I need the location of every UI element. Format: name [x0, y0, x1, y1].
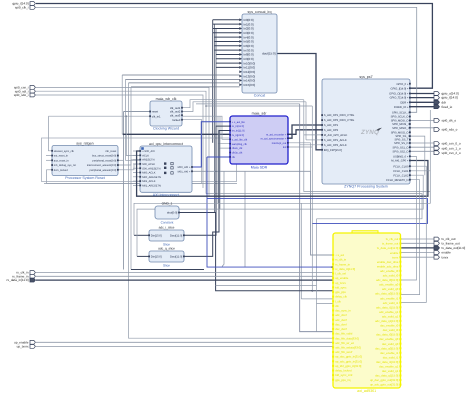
wire gpio_o net	[410, 93, 434, 95]
svg-text:ext_reset_in: ext_reset_in	[54, 155, 69, 158]
wire net 285 v	[316, 219, 318, 332]
svg-text:dcm_locked: dcm_locked	[54, 169, 68, 172]
port txnrx	[434, 255, 449, 259]
svg-text:dout[0:0]: dout[0:0]	[167, 212, 178, 215]
wire rstgen group box	[42, 138, 237, 182]
svg-text:dac_data_q0[15:0]: dac_data_q0[15:0]	[375, 346, 398, 350]
svg-text:tx_data_out[11:0]: tx_data_out[11:0]	[442, 246, 466, 250]
svg-text:+ s_axi_lite: + s_axi_lite	[232, 121, 246, 124]
svg-text:spi0_clk_i: spi0_clk_i	[15, 6, 29, 10]
svg-text:sys_rstgen: sys_rstgen	[76, 141, 93, 145]
wire clkwiz reset vertical	[123, 112, 125, 270]
svg-text:enable: enable	[390, 251, 399, 255]
svg-text:maia_sdr: maia_sdr	[252, 111, 268, 115]
wire left channel v x128	[129, 83, 334, 338]
wire rstgen aux_reset	[46, 159, 52, 161]
svg-text:ZYNQ: ZYNQ	[360, 129, 379, 136]
svg-text:M01_ACLK: M01_ACLK	[142, 180, 156, 183]
wire loop fclk c	[134, 171, 430, 236]
block maia_sdr (Maia SDR)	[229, 111, 288, 169]
wire up_enable	[36, 341, 333, 343]
svg-text:fixed_io: fixed_io	[442, 105, 453, 109]
wire clk_out3 branch b	[220, 116, 230, 148]
wire loop fclk e	[401, 180, 420, 295]
svg-text:spi0_sdo_o: spi0_sdo_o	[442, 128, 458, 132]
svg-text:adc_data_i0[15:0]: adc_data_i0[15:0]	[376, 278, 398, 282]
svg-text:dac_enable_q0: dac_enable_q0	[379, 337, 399, 341]
svg-text:interconnect_aresetn[0:0]: interconnect_aresetn[0:0]	[87, 164, 117, 167]
port spi0_sdo_i	[14, 93, 36, 97]
svg-text:dac_sync_in: dac_sync_in	[335, 309, 351, 313]
port spi0_sdo_o	[434, 128, 458, 132]
wire concat in12	[122, 74, 239, 76]
svg-text:rx_iq[31:0]: rx_iq[31:0]	[232, 134, 244, 137]
wire clkwiz clkin1 in	[49, 115, 151, 117]
svg-text:dac_valid_i0: dac_valid_i0	[383, 328, 399, 332]
svg-text:rx_data_in[11:0]: rx_data_in[11:0]	[7, 278, 29, 282]
wire maia led	[288, 146, 312, 148]
svg-text:adc_i_slice: adc_i_slice	[159, 225, 175, 229]
svg-text:adc_fifo_wdata[63:0]: adc_fifo_wdata[63:0]	[335, 346, 361, 350]
svg-text:spi0_csn_2_o: spi0_csn_2_o	[442, 151, 461, 155]
block sys_ps7 (ZYNQ7 Processing System)	[321, 75, 411, 189]
svg-text:adc_valid_i1: adc_valid_i1	[383, 301, 399, 305]
wire concat input channel v1	[212, 20, 214, 143]
svg-text:peripheral_aresetn[0:0]: peripheral_aresetn[0:0]	[90, 169, 117, 172]
wire loop fclk b v	[311, 223, 313, 290]
svg-text:SPI0_SS2_O: SPI0_SS2_O	[393, 150, 409, 153]
port tx_clk_out	[434, 237, 456, 241]
wire rstgen periph aresetn	[118, 164, 140, 170]
svg-text:GPIO_0 +: GPIO_0 +	[396, 83, 408, 86]
svg-text:up_txnrx: up_txnrx	[17, 345, 29, 349]
svg-text:GPIO_O[14:0] +: GPIO_O[14:0] +	[389, 93, 409, 96]
svg-text:up_txnrx: up_txnrx	[335, 281, 346, 285]
wire loop fclk f	[401, 157, 417, 281]
svg-text:S00_ACLK: S00_ACLK	[142, 163, 155, 166]
wire loop fclk d	[137, 175, 423, 256]
wire ss_i stub	[410, 136, 425, 175]
svg-text:DDR +: DDR +	[400, 101, 409, 104]
wire locked net	[47, 120, 202, 184]
svg-text:M_AXI_GP0 +: M_AXI_GP0 +	[391, 160, 409, 163]
svg-text:dac_data_q1[15:0]: dac_data_q1[15:0]	[375, 374, 398, 378]
svg-text:up_enable: up_enable	[335, 276, 349, 280]
svg-text:enable_dac_dma: enable_dac_dma	[377, 260, 399, 264]
svg-text:ACLK: ACLK	[142, 154, 149, 157]
svg-text:gps_pps: gps_pps	[335, 290, 346, 294]
wire maia m_axi_spect	[288, 125, 322, 138]
port tx_data_out[11:0]	[434, 246, 465, 250]
svg-text:Processor System Reset: Processor System Reset	[65, 176, 105, 180]
svg-text:SPI0_MISO_I: SPI0_MISO_I	[392, 127, 409, 130]
wire slice q dout	[184, 131, 230, 257]
svg-text:clk_in1: clk_in1	[152, 114, 161, 118]
svg-text:SPI0_MOSI_I: SPI0_MOSI_I	[392, 123, 409, 126]
wire spi0_sdo_o net	[410, 127, 434, 129]
wire concat in15	[131, 86, 240, 88]
wire net 193	[206, 194, 422, 219]
svg-text:S_AXI_HP1_FIFO_CTRL: S_AXI_HP1_FIFO_CTRL	[324, 114, 355, 117]
wire blue l_clk v1	[207, 157, 333, 267]
svg-text:rx_clk_in: rx_clk_in	[335, 258, 346, 262]
wire v224 to blue	[222, 171, 224, 267]
wire slice i dout	[184, 126, 230, 235]
wire step line 4	[206, 105, 312, 107]
svg-text:tx_data_out[11:0]: tx_data_out[11:0]	[377, 246, 399, 250]
svg-text:aux_reset_in: aux_reset_in	[54, 159, 69, 162]
wire blue l_clk h1	[207, 199, 428, 224]
svg-text:interrupt_out: interrupt_out	[272, 142, 287, 145]
svg-text:ZYNQ7 Processing System: ZYNQ7 Processing System	[344, 185, 388, 189]
block sys_concat_irq (Concat)	[242, 10, 277, 98]
wire mid v x299 top	[196, 103, 300, 105]
wire clk_out2 net	[182, 102, 306, 112]
port rx_clk_in	[16, 271, 35, 275]
svg-text:up_dac_gpio_out[31:0]: up_dac_gpio_out[31:0]	[370, 378, 399, 382]
svg-text:SPI0_MISO_O: SPI0_MISO_O	[391, 131, 409, 134]
svg-text:dac_dunf: dac_dunf	[335, 327, 347, 331]
svg-text:dac_valid_q0: dac_valid_q0	[382, 342, 399, 346]
port enable	[434, 251, 451, 255]
wire maia m_axi_recorder	[288, 130, 322, 135]
svg-text:S_AXI_HP2_FIFO_CTRL: S_AXI_HP2_FIFO_CTRL	[324, 119, 355, 122]
wire clk_out1 net	[182, 100, 304, 108]
svg-text:SPI0_SCLK_I: SPI0_SCLK_I	[392, 111, 409, 114]
svg-text:maia_wb_clk: maia_wb_clk	[156, 97, 177, 101]
svg-text:Maia SDR: Maia SDR	[251, 166, 268, 170]
wire ddr net	[410, 101, 434, 103]
svg-text:FCLK_CLK2: FCLK_CLK2	[393, 174, 409, 177]
svg-text:Concat: Concat	[254, 94, 265, 98]
svg-text:up_tdd_gpio_in[31:0]: up_tdd_gpio_in[31:0]	[335, 364, 361, 368]
wire rstgen box bottom2	[44, 182, 237, 184]
svg-text:adc_data_i1[15:0]: adc_data_i1[15:0]	[376, 305, 398, 309]
wire gpio_t net	[410, 97, 434, 99]
svg-text:dac_data_i0[15:0]: dac_data_i0[15:0]	[376, 333, 398, 337]
wire clk left loop	[49, 116, 53, 151]
wire txnrx out	[401, 256, 435, 258]
wire slice q din	[137, 255, 149, 257]
wire rx_clk_in	[36, 272, 333, 274]
wire M00_AXI to maia	[192, 122, 230, 167]
svg-text:clk_out3: clk_out3	[170, 113, 181, 117]
port fixed_io	[434, 105, 452, 109]
svg-text:re_in[11:0]: re_in[11:0]	[232, 125, 244, 128]
port up_txnrx	[17, 345, 36, 349]
wire blue dot	[332, 266, 334, 268]
svg-text:l_clk: l_clk	[335, 299, 342, 303]
svg-text:sampling_clk: sampling_clk	[232, 143, 248, 146]
svg-text:M_AXI_GP0_ACLK: M_AXI_GP0_ACLK	[324, 134, 348, 137]
svg-text:M01_AXI +: M01_AXI +	[178, 170, 191, 173]
wire fixed_io net	[410, 106, 434, 108]
svg-text:delay_clk: delay_clk	[335, 295, 347, 299]
block axi_cpu_interconnect (AXI Interconnect)	[139, 142, 193, 197]
port gpio_t[14:0]	[434, 96, 458, 100]
wire spi0_clk_i net	[36, 7, 417, 112]
svg-text:ddr: ddr	[442, 100, 446, 104]
wire concat in13	[126, 78, 240, 80]
port gpio_o[14:0]	[434, 92, 459, 96]
svg-text:Din[15:0]: Din[15:0]	[151, 255, 162, 258]
svg-text:adc_dunf: adc_dunf	[335, 318, 347, 322]
svg-text:up_dac_gpio_in[31:0]: up_dac_gpio_in[31:0]	[335, 355, 362, 359]
wire mid v x306	[305, 102, 307, 140]
svg-text:mb_reset: mb_reset	[105, 150, 116, 153]
svg-text:adc_valid_q1: adc_valid_q1	[382, 314, 399, 318]
wire spi0_csn_1 net	[410, 146, 434, 148]
wire up_txnrx	[36, 345, 333, 347]
svg-text:locked: locked	[172, 118, 181, 122]
svg-text:axi_cpu_interconnect: axi_cpu_interconnect	[149, 142, 183, 146]
svg-text:adc_fifo_wr_en: adc_fifo_wr_en	[335, 341, 354, 345]
port spi0_csn_2_o	[434, 151, 461, 155]
wire concat input stubs	[213, 18, 243, 86]
wire rx_data_in bus	[36, 279, 333, 281]
wire v245	[244, 171, 246, 267]
svg-text:SPI0_SCLK_O: SPI0_SCLK_O	[391, 116, 409, 119]
block axi_ad9361 (highlighted)	[332, 231, 401, 393]
wire concat input channel v3	[215, 29, 217, 236]
svg-text:FIXED_IO +: FIXED_IO +	[394, 106, 409, 109]
wire clk_out3 branch a	[218, 116, 230, 144]
wire v218 lower	[217, 144, 219, 204]
svg-text:In15[0:0]: In15[0:0]	[244, 83, 256, 87]
wire clk chan a	[126, 116, 140, 155]
svg-text:spi0_csn_0_o: spi0_csn_0_o	[442, 142, 461, 146]
svg-text:Dout[11:0]: Dout[11:0]	[170, 234, 182, 237]
wire mid v x301	[300, 203, 302, 299]
svg-text:AXI Interconnect: AXI Interconnect	[153, 193, 180, 197]
svg-text:FCLK_CLK0: FCLK_CLK0	[393, 165, 409, 168]
svg-text:dac_dovf: dac_dovf	[335, 322, 347, 326]
svg-text:dac_valid_i1: dac_valid_i1	[383, 355, 399, 359]
svg-text:tx_frame_out: tx_frame_out	[442, 241, 460, 245]
wire tx_data_out	[401, 247, 435, 249]
svg-text:GND_1: GND_1	[162, 201, 173, 205]
port up_enable	[14, 340, 35, 344]
svg-text:rx_data_in[11:0]: rx_data_in[11:0]	[335, 267, 355, 271]
svg-text:M01_ARESETN: M01_ARESETN	[142, 185, 161, 188]
svg-text:adc_valid_i0: adc_valid_i0	[383, 274, 399, 278]
svg-text:dac_fifo_valid: dac_fifo_valid	[335, 332, 353, 336]
svg-text:up_adc_gpio_out[31:0]: up_adc_gpio_out[31:0]	[370, 383, 399, 387]
svg-text:adc_valid_q0: adc_valid_q0	[382, 287, 399, 291]
svg-text:clk3x_clk: clk3x_clk	[232, 152, 243, 155]
port spi0_clk_o	[434, 119, 456, 123]
svg-text:slowest_sync_clk: slowest_sync_clk	[54, 150, 75, 153]
wire gnd jct	[311, 290, 313, 292]
svg-text:reset: reset	[152, 110, 158, 114]
wire adc bus to maia h	[124, 133, 230, 135]
wire interconnect input stubs	[133, 151, 140, 185]
svg-text:M00_AXI +: M00_AXI +	[178, 166, 191, 169]
wire loop bottom g	[301, 298, 333, 300]
svg-text:tx_clk_out: tx_clk_out	[386, 237, 399, 241]
svg-text:S_AXI_HP1_ACLK: S_AXI_HP1_ACLK	[324, 139, 347, 142]
svg-text:txnrx: txnrx	[392, 255, 399, 259]
svg-text:spi0_csn_1_o: spi0_csn_1_o	[442, 146, 461, 150]
svg-text:im_in[11:0]: im_in[11:0]	[232, 130, 245, 133]
wire zynq hp1 aclk	[306, 139, 322, 141]
svg-text:txnrx: txnrx	[442, 255, 449, 259]
svg-text:S00_ARESETN: S00_ARESETN	[142, 167, 160, 170]
svg-text:adc_q_slice: adc_q_slice	[158, 246, 175, 250]
wire concat input channel v2	[213, 24, 215, 212]
port tx_frame_out	[434, 241, 460, 245]
svg-text:adc_dovf: adc_dovf	[335, 313, 347, 317]
wire step4 jct	[205, 105, 207, 107]
svg-text:adc_enable_i1: adc_enable_i1	[380, 296, 399, 300]
port spi0_csn_1_o	[434, 146, 461, 150]
svg-text:Slice: Slice	[163, 264, 170, 268]
svg-text:axi_ad9361: axi_ad9361	[357, 389, 376, 393]
svg-text:spi0_clk_o: spi0_clk_o	[442, 119, 457, 123]
port rx_data_in[11:0]	[7, 278, 36, 282]
port spi0_csn_0_o	[434, 142, 461, 146]
svg-text:dac_enable_i1: dac_enable_i1	[380, 351, 399, 355]
wire spi0_csn_i net	[36, 87, 209, 196]
svg-text:dac_valid_q1: dac_valid_q1	[382, 369, 399, 373]
svg-text:adc_data_q1[15:0]: adc_data_q1[15:0]	[375, 319, 398, 323]
svg-text:Constant: Constant	[161, 221, 174, 225]
svg-text:SPI0_SS_O: SPI0_SS_O	[394, 142, 409, 145]
svg-text:GPIO_T[14:0] +: GPIO_T[14:0] +	[390, 97, 409, 100]
svg-text:gpio_t[14:0]: gpio_t[14:0]	[442, 96, 458, 100]
port spi0_sdi_i	[15, 89, 36, 93]
svg-text:mb_debug_sys_rst: mb_debug_sys_rst	[54, 164, 76, 167]
wire tx_clk_out	[401, 238, 435, 240]
wire clkin1 junction	[126, 115, 128, 117]
wire concat in14	[129, 82, 240, 84]
wire rstgen ext_reset	[46, 155, 52, 157]
svg-text:USBIND_0 +: USBIND_0 +	[393, 155, 409, 158]
wire clk_out3 net	[182, 116, 230, 139]
svg-text:spi0_sdo_i: spi0_sdo_i	[14, 93, 29, 97]
svg-text:up_adc_gpio_in[31:0]: up_adc_gpio_in[31:0]	[335, 359, 362, 363]
svg-text:tx_frame_out: tx_frame_out	[382, 242, 399, 246]
wire v430 upper	[429, 110, 431, 171]
wire rst junction	[123, 133, 125, 135]
svg-text:gps_pps_irq: gps_pps_irq	[335, 378, 351, 382]
wire gpio_i bus net	[36, 4, 432, 89]
svg-text:adc_enable_q0: adc_enable_q0	[379, 283, 399, 287]
svg-text:dout[15:0]: dout[15:0]	[262, 52, 276, 56]
svg-text:FCLK_RESET0_N: FCLK_RESET0_N	[386, 179, 408, 182]
svg-text:adc_fifo_wovf: adc_fifo_wovf	[335, 350, 352, 354]
svg-text:adc_enable_i0: adc_enable_i0	[380, 269, 399, 273]
svg-text:tdd_sync_cntr: tdd_sync_cntr	[335, 373, 352, 377]
svg-text:M00_ARESETN: M00_ARESETN	[142, 176, 161, 179]
svg-text:sys_concat_irq: sys_concat_irq	[248, 10, 272, 14]
svg-text:dac_data_i1[15:0]: dac_data_i1[15:0]	[376, 360, 398, 364]
wire slice i din	[134, 234, 149, 236]
svg-text:S_AXI_HP2: S_AXI_HP2	[324, 129, 339, 132]
wire mid v x303	[304, 100, 431, 192]
wire mid v x312	[311, 106, 313, 223]
port ddr	[434, 100, 446, 104]
port spi0_clk_i	[15, 6, 35, 10]
wire blue l_clk maia stub	[207, 156, 230, 158]
wire left channel v x131	[130, 87, 132, 270]
block sys_rstgen (Processor System Reset)	[51, 141, 119, 180]
svg-text:ARESETN: ARESETN	[142, 159, 154, 162]
svg-text:rx_frame_in: rx_frame_in	[335, 262, 350, 266]
wire rstgen outputs right	[118, 160, 140, 165]
svg-text:enable_adc_dma: enable_adc_dma	[377, 264, 399, 268]
port spi0_csn_i	[14, 86, 36, 90]
svg-text:S_AXI_HP2_ACLK: S_AXI_HP2_ACLK	[324, 144, 347, 147]
wire spi0_clk_o net	[410, 119, 434, 121]
svg-text:SPI0_MOSI_O: SPI0_MOSI_O	[391, 120, 409, 123]
wire enable out	[401, 252, 435, 254]
wire loop fclk b	[401, 166, 427, 302]
port gpio_i[14:0]	[13, 2, 36, 6]
wire left channel v x122	[121, 75, 123, 134]
wire mid v x299	[300, 104, 333, 332]
svg-text:+ s_axi: + s_axi	[335, 253, 344, 257]
svg-text:clk: clk	[335, 304, 339, 308]
svg-text:m_axi_spectrometer +: m_axi_spectrometer +	[261, 137, 287, 140]
wire spi0_sdo_i net	[36, 95, 203, 188]
wire M01_AXI to ad9361	[192, 171, 333, 255]
svg-text:clk2x_clk: clk2x_clk	[232, 147, 243, 150]
wire spi0_csn_2 net	[410, 150, 434, 152]
wire spi0_csn_0 net	[410, 142, 434, 144]
svg-text:s_axi_lite_clk: s_axi_lite_clk	[232, 138, 248, 141]
svg-text:delay_locked: delay_locked	[335, 369, 352, 373]
block maia_wb_clk (Clocking Wizard)	[149, 97, 183, 131]
svg-text:Dout[11:0]: Dout[11:0]	[170, 255, 182, 258]
svg-text:dac_fifo_data[63:0]: dac_fifo_data[63:0]	[335, 336, 359, 340]
wire M_AXI_GP0 loop	[137, 151, 428, 196]
svg-text:Din[15:0]: Din[15:0]	[151, 234, 162, 237]
block adc_i_slice (Slice)	[148, 225, 185, 246]
wire periph reset to wiz	[118, 159, 124, 161]
svg-text:dac_enable_q1: dac_enable_q1	[379, 365, 399, 369]
wire v220 lower	[219, 148, 221, 209]
wire net 285 h2	[317, 303, 334, 305]
wire concat dout to IRQ_F2P	[277, 54, 322, 150]
wire rx_frame_in	[36, 275, 333, 277]
svg-text:S_AXI_HP1: S_AXI_HP1	[324, 124, 339, 127]
svg-text:M00_ACLK: M00_ACLK	[142, 172, 156, 175]
port rx_frame_in	[12, 274, 35, 278]
svg-text:peripheral_reset[0:0]: peripheral_reset[0:0]	[92, 159, 116, 162]
svg-text:tdd_sync: tdd_sync	[335, 285, 347, 289]
block GND_1 (Constant)	[155, 201, 180, 224]
wire zynq gp0 aclk	[304, 134, 322, 136]
svg-text:l_clk_sel: l_clk_sel	[335, 272, 346, 276]
svg-text:SPI0_SS1_O: SPI0_SS1_O	[393, 146, 409, 149]
svg-text:m_axi_recorder +: m_axi_recorder +	[266, 133, 287, 136]
block adc_q_slice (Slice)	[148, 246, 185, 267]
svg-text:adc_data_q0[15:0]: adc_data_q0[15:0]	[375, 292, 398, 296]
svg-text:bus_struct_reset[0:0]: bus_struct_reset[0:0]	[92, 155, 117, 158]
wire maia interrupt_out	[288, 143, 311, 172]
svg-text:FCLK_CLK1: FCLK_CLK1	[393, 170, 409, 173]
svg-text:Clocking Wizard: Clocking Wizard	[153, 127, 179, 131]
svg-text:dac_enable_i0: dac_enable_i0	[380, 324, 399, 328]
wire clkwiz reset in	[124, 111, 151, 113]
wire spi0_sdi_i net	[36, 91, 206, 193]
wire tx_frame_out	[401, 242, 435, 244]
wire adc loop bottom	[131, 269, 204, 271]
svg-text:enable: enable	[442, 251, 452, 255]
wire left channel v x125	[126, 79, 141, 160]
wire zynq hp2 aclk	[300, 144, 322, 146]
